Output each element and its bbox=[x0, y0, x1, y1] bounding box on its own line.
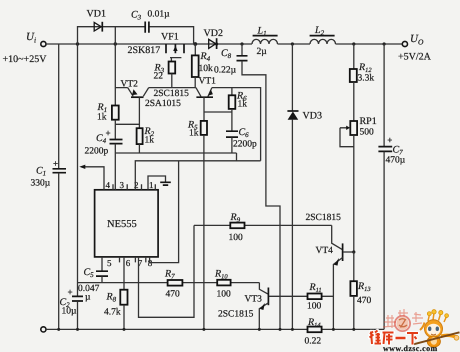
diode VD1 bbox=[87, 9, 106, 32]
wire: common line VT2 to R3/R4/VT1 bbox=[149, 87, 196, 89]
svg-text:2200p: 2200p bbox=[233, 140, 257, 150]
svg-text:2200p: 2200p bbox=[85, 147, 109, 157]
svg-text:22: 22 bbox=[154, 72, 164, 82]
svg-text:2SC1815: 2SC1815 bbox=[154, 89, 190, 99]
wire: top rail between L1 and L2 bbox=[278, 43, 311, 45]
svg-text:5: 5 bbox=[107, 258, 112, 268]
wire: pin 7 loop to R9 line bbox=[139, 225, 195, 317]
svg-text:1: 1 bbox=[149, 180, 154, 190]
resistor R1 bbox=[97, 102, 119, 139]
transistor VT2 (2SA1015) bbox=[115, 80, 148, 98]
svg-text:2SC1815: 2SC1815 bbox=[218, 310, 254, 320]
stamp ring bbox=[395, 316, 410, 331]
svg-text:NE555: NE555 bbox=[107, 219, 137, 230]
wire: pin 5 lead bbox=[101, 257, 103, 271]
capacitor C8 bbox=[214, 44, 280, 329]
capacitor C5 bbox=[78, 267, 108, 303]
svg-text:+: + bbox=[387, 135, 392, 145]
output terminal Uo bbox=[398, 33, 432, 63]
wire: lower feedback line (C4/R2/R5/C6 bottoms) bbox=[115, 153, 236, 161]
svg-text:+: + bbox=[53, 159, 58, 169]
resistor R13 bbox=[350, 252, 371, 329]
transistor VT3 bbox=[245, 283, 269, 330]
wire: top rail from L2 to output terminal bbox=[336, 43, 403, 45]
svg-text:0.22µ: 0.22µ bbox=[214, 66, 237, 76]
node: junction VD2 cathode bbox=[215, 42, 218, 45]
svg-text:+: + bbox=[68, 287, 73, 297]
ground terminal (bottom left) bbox=[41, 327, 46, 332]
svg-text:470: 470 bbox=[357, 296, 372, 306]
wire: VT2 base lead bbox=[138, 97, 140, 128]
svg-text:10µ: 10µ bbox=[62, 307, 78, 317]
svg-text:VD3: VD3 bbox=[303, 111, 322, 122]
capacitor C4 bbox=[85, 128, 123, 190]
resistor R3 bbox=[154, 62, 176, 88]
resistor R8 bbox=[104, 290, 128, 330]
resistor R4 bbox=[192, 44, 213, 88]
node: bottom rail junctions bbox=[57, 328, 355, 331]
wire: top rail from input terminal to L1 bbox=[46, 43, 252, 45]
svg-text:3: 3 bbox=[120, 180, 125, 190]
wire: pin 3 column up to VT2 node (through R1, C4) bbox=[114, 44, 116, 106]
transistor VT1 (2SC1815) bbox=[196, 77, 216, 98]
ground bbox=[160, 182, 171, 185]
svg-text:VD2: VD2 bbox=[204, 28, 223, 39]
pin divider ticks bottom bbox=[120, 257, 146, 263]
node: junction rail / C8 bbox=[240, 42, 243, 45]
capacitor C3 bbox=[131, 10, 170, 33]
resistor R12 bbox=[350, 44, 375, 121]
svg-text:0.22: 0.22 bbox=[305, 337, 322, 347]
svg-text:4: 4 bbox=[106, 180, 111, 190]
svg-text:+10~+25V: +10~+25V bbox=[3, 54, 48, 65]
svg-text:470µ: 470µ bbox=[386, 156, 406, 166]
potentiometer RP1 bbox=[340, 116, 377, 252]
wire: R1/R2 connector bbox=[115, 123, 139, 125]
transistor VF1 (MOSFET 2SK817) bbox=[128, 32, 185, 62]
capacitor C2 bbox=[60, 44, 84, 329]
svg-text:www.dzsc.com: www.dzsc.com bbox=[383, 344, 438, 352]
svg-text:100: 100 bbox=[307, 302, 322, 312]
wire: pin 6 lead bbox=[123, 257, 125, 290]
svg-text:2SC1815: 2SC1815 bbox=[306, 213, 342, 223]
svg-text:+5V/2A: +5V/2A bbox=[398, 52, 432, 63]
svg-text:VT2: VT2 bbox=[121, 80, 139, 90]
capacitor C1 bbox=[31, 44, 67, 329]
wire: bottom rail bbox=[46, 328, 384, 330]
svg-text:VT1: VT1 bbox=[199, 77, 217, 87]
node: junction input rail / C2 column bbox=[76, 42, 79, 45]
svg-text:500: 500 bbox=[360, 128, 375, 138]
wire: VT1 base lead bbox=[203, 97, 205, 121]
resistor R9 bbox=[229, 212, 245, 243]
wire: connector VD1 cathode to rail bbox=[114, 27, 116, 44]
svg-text:4.7k: 4.7k bbox=[104, 308, 121, 318]
svg-text:10k: 10k bbox=[199, 64, 214, 74]
capacitor C6 bbox=[226, 127, 257, 153]
node: junction rail / VD3 bbox=[291, 42, 294, 45]
node: junction rail / C7 column bbox=[383, 42, 386, 45]
svg-text:1k: 1k bbox=[189, 129, 199, 139]
transistor VT4 bbox=[316, 225, 354, 329]
wire: pin 4 to +V line with arrow bbox=[79, 165, 104, 190]
svg-text:VD1: VD1 bbox=[87, 9, 106, 20]
diode VD3 bbox=[287, 44, 322, 329]
input terminal Ui bbox=[3, 31, 48, 65]
svg-text:1k: 1k bbox=[97, 113, 107, 123]
svg-text:470: 470 bbox=[166, 290, 181, 300]
resistor R14 (current sense in bottom rail) bbox=[305, 317, 322, 347]
wire: R9 line from pin7 corner to VT4 bbox=[194, 224, 332, 226]
red text 维库一下 bbox=[370, 331, 419, 345]
pin divider ticks top bbox=[113, 184, 155, 190]
wire: snubber top branch (VD1/C3) bbox=[78, 27, 194, 44]
svg-text:100: 100 bbox=[217, 290, 232, 300]
wire: VT3 collector / R11 line bbox=[269, 295, 333, 297]
inductor L2 bbox=[310, 25, 336, 44]
resistor R10 bbox=[214, 269, 231, 300]
svg-text:2µ: 2µ bbox=[257, 47, 268, 57]
svg-text:0.01µ: 0.01µ bbox=[148, 10, 171, 20]
resistor R6 bbox=[229, 88, 248, 131]
svg-text:3.3k: 3.3k bbox=[358, 74, 375, 84]
node: junction rail / VD1 connector bbox=[114, 42, 117, 45]
svg-text:VT3: VT3 bbox=[245, 295, 263, 305]
wire: R7/R10 drive line bbox=[78, 282, 260, 284]
resistor R11 bbox=[307, 282, 322, 312]
svg-text:RP1: RP1 bbox=[360, 116, 377, 127]
inductor L1 bbox=[252, 26, 278, 58]
svg-text:1k: 1k bbox=[145, 136, 155, 146]
svg-text:VF1: VF1 bbox=[161, 32, 179, 43]
svg-text:VT4: VT4 bbox=[316, 246, 334, 256]
capacitor C7 bbox=[378, 44, 405, 329]
svg-text:330µ: 330µ bbox=[31, 179, 51, 189]
op-amp U1: NE555 timer box bbox=[95, 190, 159, 257]
svg-text:+: + bbox=[106, 128, 111, 138]
svg-text:µ: µ bbox=[85, 293, 91, 303]
mascot bbox=[412, 310, 460, 348]
wire: base/R6 connector bbox=[204, 111, 232, 113]
svg-text:1k: 1k bbox=[238, 100, 248, 110]
wire: pin 1 to ground bbox=[148, 176, 166, 190]
node: junction rail / R12 column bbox=[352, 42, 355, 45]
resistor R2 bbox=[137, 126, 155, 153]
svg-text:100: 100 bbox=[229, 233, 244, 243]
svg-text:6: 6 bbox=[126, 258, 131, 268]
svg-text:2SK817: 2SK817 bbox=[128, 45, 161, 56]
node: VT4 collector junction bbox=[352, 250, 355, 253]
diode VD2 bbox=[204, 28, 223, 49]
node: junction rail / R4 bbox=[193, 42, 197, 46]
watermark: dzsc.com logo group (decorative) bbox=[370, 309, 460, 352]
resistor R5 bbox=[187, 120, 207, 139]
resistor R7 bbox=[164, 269, 182, 300]
svg-text:2SA1015: 2SA1015 bbox=[145, 99, 181, 109]
wire: long vertical R5 column to bottom rail bbox=[203, 135, 205, 330]
wire: pin 2 to feedback line bbox=[135, 161, 260, 190]
wire: pin 8 connector bbox=[150, 161, 179, 263]
wire: VT1 emitter to right corner bbox=[212, 88, 261, 161]
